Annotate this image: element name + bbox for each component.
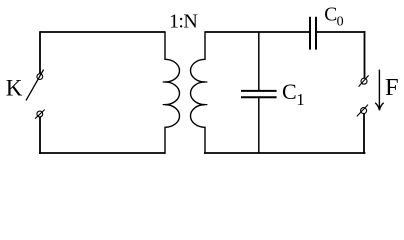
wire: bottom right (secondary to output) [204,152,365,154]
svg-text:C: C [282,79,297,104]
secondary winding cusp tick 2 [203,104,207,106]
svg-text:1:N: 1:N [169,10,197,32]
capacitor C0 right plate [315,17,317,50]
arrow F (output direction) [378,70,380,110]
wire: left loop left lower segment [39,117,41,154]
wire: C1 branch lower segment [258,97,260,153]
switch K bottom terminal slash [35,110,45,119]
svg-text:C: C [324,4,337,25]
output terminal F bottom circle [361,108,367,114]
wire: right side lower segment [363,114,365,154]
transformer secondary winding L2 [190,31,205,154]
capacitor C0 left plate [309,17,311,50]
wire: left loop top (switch to primary) [40,31,165,33]
svg-text:0: 0 [337,14,344,29]
transformer primary winding L1 [165,31,180,154]
switch K top terminal circle [37,74,43,80]
output terminal F bottom slash [357,105,368,117]
switch K bottom terminal circle [37,111,43,117]
wire: right side upper segment [364,31,366,78]
wire: secondary top to C0 left plate [205,31,309,33]
wire: C1 branch upper segment [258,32,260,90]
output terminal F top circle [361,78,367,84]
primary winding cusp tick 2 [163,104,167,106]
svg-text:K: K [6,76,23,101]
svg-text:1: 1 [296,90,305,109]
capacitor C1 top plate [241,90,277,92]
wire: C0 right plate to top-right corner [316,31,365,33]
wire: left loop bottom [39,152,165,154]
svg-text:F: F [385,74,399,101]
switch K lever (blade through top terminal) [26,70,44,101]
output terminal F top slash [359,75,369,86]
primary winding cusp tick 1 [163,81,167,83]
secondary winding cusp tick 1 [203,81,207,83]
wire: left loop left upper segment [39,31,41,73]
capacitor C1 bottom plate [241,96,277,98]
